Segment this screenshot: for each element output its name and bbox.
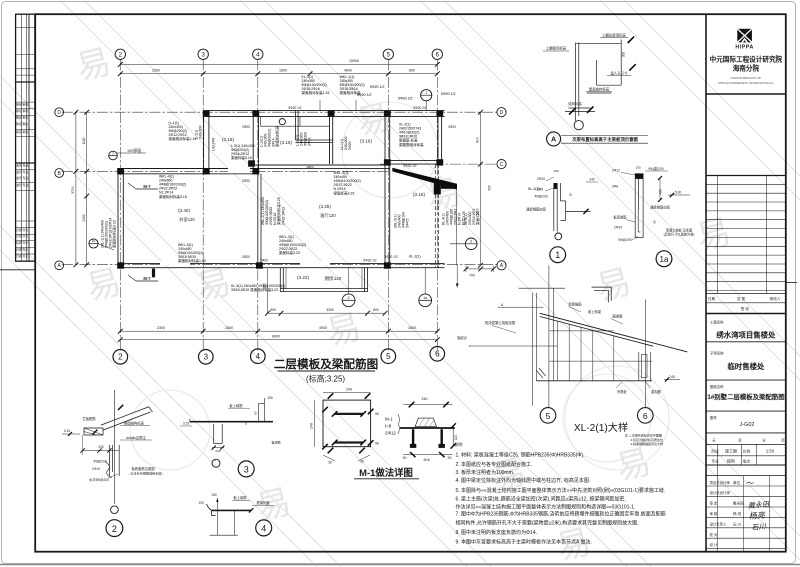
beam label L4 rot xyxy=(212,138,216,151)
svg-text:5Φ20 1/2: 5Φ20 1/2 xyxy=(403,164,416,168)
svg-text:190厚墙: 190厚墙 xyxy=(127,148,141,153)
main drawing title xyxy=(274,357,378,383)
svg-text:500: 500 xyxy=(488,185,492,191)
svg-text:1. 材料: 梁板混凝土等级C25, 钢筋HPB235(Φ): 1. 材料: 梁板混凝土等级C25, 钢筋HPB235(Φ)HRB335(Φ). xyxy=(456,452,585,459)
XL-2 leader texts xyxy=(457,301,680,394)
svg-text:圈梁箍: 圈梁箍 xyxy=(613,313,624,318)
svg-text:2. 本图纸应与各专业图纸配合施工.: 2. 本图纸应与各专业图纸配合施工. xyxy=(456,461,533,468)
rebar label 5phi20b xyxy=(398,97,413,101)
svg-text:150: 150 xyxy=(267,396,273,400)
beam label KL-1 xyxy=(302,75,330,95)
svg-text:变 更: 变 更 xyxy=(737,296,746,301)
XL-2 bottom chord xyxy=(536,380,652,382)
fold mark line xyxy=(0,269,35,271)
svg-text:HIPPA: HIPPA xyxy=(735,45,753,51)
svg-text:5Φ20 1/2: 5Φ20 1/2 xyxy=(357,93,372,97)
svg-text:比例: 比例 xyxy=(743,448,751,453)
fold tick right xyxy=(786,282,797,284)
sloped beam right bar xyxy=(441,184,457,189)
svg-text:结构标高: 结构标高 xyxy=(568,101,582,106)
right dim 700 xyxy=(464,265,496,277)
sloped beam column block xyxy=(434,181,441,195)
svg-text:1b: 1b xyxy=(92,239,96,243)
svg-text:2: 2 xyxy=(470,239,472,243)
room 3.16 right label xyxy=(413,192,425,197)
axis bubble 5 top xyxy=(383,49,393,59)
detail 2 eave section xyxy=(84,390,153,504)
svg-text:2Φ12: 2Φ12 xyxy=(385,431,396,436)
svg-text:梁面标高3.25: 梁面标高3.25 xyxy=(334,190,355,195)
svg-text:板上增筋: 板上增筋 xyxy=(229,403,243,408)
svg-text:会签 专业: 会签 专业 xyxy=(16,170,28,174)
svg-text:会签 专业: 会签 专业 xyxy=(16,164,28,168)
detail A small circle xyxy=(574,121,583,130)
beam label 2KL-1 vertical xyxy=(101,218,117,248)
svg-text:工程名称: 工程名称 xyxy=(710,320,724,325)
svg-text:板起点: 板起点 xyxy=(457,335,467,340)
svg-text:目: 目 xyxy=(738,438,741,442)
svg-text:A: A xyxy=(551,135,556,144)
svg-text:5Φ20 2/2: 5Φ20 2/2 xyxy=(398,97,413,101)
svg-text:1a: 1a xyxy=(423,296,427,300)
detail 2 dims xyxy=(62,429,119,455)
svg-text:50: 50 xyxy=(569,193,573,197)
detail 1 annotations xyxy=(526,169,598,211)
beam label L-1a2 vertical xyxy=(296,132,312,146)
svg-text:审定 审核: 审定 审核 xyxy=(16,103,28,107)
svg-text:图号: 图号 xyxy=(710,415,717,420)
svg-text:9. 本图中灰膏要求标高高于主梁时模板作法见本页节点A 做法: 9. 本图中灰膏要求标高高于主梁时模板作法见本页节点A 做法. xyxy=(456,538,592,545)
beam label WKL-3 bottom xyxy=(279,235,306,255)
beam label XL-4 vertical xyxy=(464,209,480,225)
svg-text:6: 6 xyxy=(643,411,648,421)
XL-2 title xyxy=(574,421,628,434)
watermark glyphs xyxy=(73,43,735,567)
title block divider 1 xyxy=(706,93,786,95)
svg-text:绣水湾项目售楼处: 绣水湾项目售楼处 xyxy=(715,331,776,340)
svg-text:30: 30 xyxy=(328,461,332,465)
right dimension chain xyxy=(475,110,491,268)
appendage left dim 800 xyxy=(263,269,268,314)
svg-text:5Φ20 1/2: 5Φ20 1/2 xyxy=(441,92,456,96)
svg-text:会签 专业: 会签 专业 xyxy=(16,176,28,180)
beam label KL-2 xyxy=(528,187,540,191)
svg-text:A: A xyxy=(500,263,504,269)
svg-text:3. 板厚未注明者为100mm.: 3. 板厚未注明者为100mm. xyxy=(456,469,515,476)
bottom dimension line small xyxy=(265,308,387,316)
column axis4-A xyxy=(256,262,263,268)
svg-text:日期 签名: 日期 签名 xyxy=(16,247,28,251)
svg-text:3Φ20: 3Φ20 xyxy=(260,259,268,263)
svg-text:梁面3.25: 梁面3.25 xyxy=(475,211,480,225)
small dim 3460 labels xyxy=(242,106,456,263)
svg-text:(标高;3.25): (标高;3.25) xyxy=(306,373,345,383)
section marker 1a plan bottom right xyxy=(419,267,432,307)
revision table xyxy=(706,176,786,314)
room 3.40 label xyxy=(178,208,195,223)
HIPPA logo xyxy=(735,29,753,51)
svg-text:Φ8@200: Φ8@200 xyxy=(93,459,106,463)
svg-text:水平Φ8@200: 水平Φ8@200 xyxy=(89,477,109,482)
column axis2-B xyxy=(117,168,124,174)
axis grid lines horizontal xyxy=(62,112,497,265)
wall x330 vertical upper xyxy=(330,111,333,165)
M-1 title xyxy=(354,467,419,479)
M-1 dims xyxy=(309,388,378,465)
svg-text:2: 2 xyxy=(118,353,123,362)
axis bubble D left xyxy=(55,108,64,117)
beam label LL-1 vertical xyxy=(340,137,352,150)
extension line x456 xyxy=(456,189,458,265)
svg-text:2Φ12: 2Φ12 xyxy=(612,168,620,172)
svg-text:58: 58 xyxy=(375,412,379,416)
svg-text:审定 审核: 审定 审核 xyxy=(16,122,28,126)
svg-text:4600: 4600 xyxy=(344,69,352,73)
wall axis3 vertical upper xyxy=(204,111,209,174)
axis bubble B left xyxy=(55,169,64,178)
axis bubble 3 bottom xyxy=(199,350,214,365)
svg-text:6: 6 xyxy=(435,350,440,359)
svg-text:二层模板及梁配筋图: 二层模板及梁配筋图 xyxy=(274,357,378,371)
svg-text:4: 4 xyxy=(261,524,266,534)
svg-text:说明: 说明 xyxy=(454,441,462,448)
column axis4-B xyxy=(252,168,259,174)
firm name text xyxy=(710,55,783,86)
detail A leader texts xyxy=(543,32,631,106)
M-1 plate detail xyxy=(322,393,373,453)
svg-text:2: 2 xyxy=(112,524,117,534)
svg-text:施工图: 施工图 xyxy=(725,447,737,453)
svg-text:杨 亮: 杨 亮 xyxy=(733,511,742,516)
svg-text:项目总设计师: 项目总设计师 xyxy=(710,480,731,485)
svg-text:3300: 3300 xyxy=(326,308,334,312)
lower appendage walls xyxy=(280,268,367,292)
column axis3-D xyxy=(203,110,210,116)
svg-text:4900: 4900 xyxy=(319,326,327,330)
svg-text:5Φ20 1/2: 5Φ20 1/2 xyxy=(370,85,385,89)
XL-2 axis bubble 6 xyxy=(638,408,654,424)
detail 4 bubble xyxy=(256,520,272,536)
svg-text:Φ6(梁)200: Φ6(梁)200 xyxy=(648,166,664,171)
column axis2-A xyxy=(117,262,124,268)
svg-text:1800: 1800 xyxy=(225,326,233,330)
XL-2 slope arrows xyxy=(536,368,545,378)
wall B axis right xyxy=(255,165,390,168)
svg-text:3.斜梁钢筋锚固详见大样: 3.斜梁钢筋锚固详见大样 xyxy=(631,441,664,446)
axis bubble A left xyxy=(55,261,64,270)
svg-text:5Φ20 1/2: 5Φ20 1/2 xyxy=(363,259,376,263)
svg-text:遇梁钢筋加密: 遇梁钢筋加密 xyxy=(526,207,546,212)
svg-text:上翻梁顶标高: 上翻梁顶标高 xyxy=(546,46,567,51)
section marker 2 plan bottom left xyxy=(342,267,355,307)
column x330-D xyxy=(328,110,335,116)
svg-text:1a: 1a xyxy=(660,255,669,264)
room kitchen label label xyxy=(325,275,342,282)
svg-text:梁面相对标高3.23: 梁面相对标高3.23 xyxy=(112,220,117,248)
svg-text:M-7: M-7 xyxy=(143,276,151,281)
svg-text:阶段: 阶段 xyxy=(712,448,720,453)
wall axis5 vertical xyxy=(385,111,390,268)
beam label WKL-4 xyxy=(159,175,187,199)
svg-text:客厅130: 客厅130 xyxy=(320,212,336,219)
svg-text:日期 签名: 日期 签名 xyxy=(16,228,28,232)
column axis5-C xyxy=(384,159,391,165)
svg-text:石 川: 石 川 xyxy=(733,522,742,526)
svg-text:现浇混凝土挑板加筋: 现浇混凝土挑板加筋 xyxy=(485,320,516,325)
svg-text:C: C xyxy=(500,162,504,168)
column right-C xyxy=(436,159,443,165)
svg-text:相同构件,允许钢筋开孔不大于需要(梁跨度≥2米),构造要求其: 相同构件,允许钢筋开孔不大于需要(梁跨度≥2米),构造要求其完整见制图规则放大图… xyxy=(456,520,639,527)
svg-text:100: 100 xyxy=(635,166,640,170)
svg-text:梁面相对标高1.00: 梁面相对标高1.00 xyxy=(178,258,206,263)
svg-text:800: 800 xyxy=(409,69,415,73)
svg-text:Φ6@200: Φ6@200 xyxy=(618,238,631,242)
svg-text:作法详见««混凝土结构施工图平面整体表示方法制图规则和构造详: 作法详见««混凝土结构施工图平面整体表示方法制图规则和构造详图»»03G101-… xyxy=(456,503,636,510)
detail 3 dims/annotations xyxy=(180,396,281,453)
svg-text:3: 3 xyxy=(244,465,249,475)
svg-text:梁面标高3.15: 梁面标高3.15 xyxy=(231,155,252,160)
beam label WKL-5 xyxy=(178,243,206,263)
svg-text:梁面相对标高1.15: 梁面相对标高1.15 xyxy=(302,90,330,95)
detail 2 bubbles xyxy=(111,506,119,514)
svg-text:审定 审核: 审定 审核 xyxy=(16,109,28,113)
svg-text:上翻边梁顶标高: 上翻边梁顶标高 xyxy=(602,32,626,37)
top band inner lines xyxy=(261,116,330,126)
axis bubble 2 bottom xyxy=(113,350,128,365)
wall A axis bottom xyxy=(118,263,445,267)
svg-text:审 定: 审 定 xyxy=(710,501,718,506)
svg-text:Φ6@200: Φ6@200 xyxy=(534,195,547,199)
svg-text:(3.23): (3.23) xyxy=(297,275,309,280)
beam label KL-5 xyxy=(231,284,285,292)
axis grid lines vertical xyxy=(120,60,437,352)
column interior xyxy=(248,160,255,166)
beam label L-5 in room xyxy=(231,144,255,160)
wall D axis top xyxy=(204,111,445,117)
svg-text:梁面标高3.23: 梁面标高3.23 xyxy=(279,250,300,255)
svg-text:D: D xyxy=(57,110,61,116)
door mark below A wall xyxy=(152,269,155,278)
project name section xyxy=(706,320,786,342)
interior door openings xyxy=(160,169,330,264)
beam label WKL-1 xyxy=(340,75,365,95)
svg-text:M-1: M-1 xyxy=(385,417,393,422)
svg-text:2Φ8: 2Φ8 xyxy=(537,187,543,191)
title block xyxy=(706,29,797,552)
svg-text:梁面相对标高3.15: 梁面相对标高3.15 xyxy=(159,194,187,199)
detail 1a bubble xyxy=(656,251,672,267)
drawing name section xyxy=(706,384,786,411)
detail 3 bubbles xyxy=(212,459,220,467)
svg-text:details见附注: details见附注 xyxy=(126,435,146,440)
bottom dimension line total xyxy=(118,335,440,342)
svg-text:日期: 日期 xyxy=(708,296,716,301)
svg-text:3.15: 3.15 xyxy=(64,429,71,433)
svg-text:HAINAN BRANCH OF: HAINAN BRANCH OF xyxy=(731,76,762,80)
wall right edge vertical lower dashed xyxy=(435,164,438,268)
svg-text:结构: 结构 xyxy=(727,458,735,464)
left dimension chain outer xyxy=(71,110,78,267)
bottom dimension line segments xyxy=(118,326,440,334)
svg-text:板上增筋: 板上增筋 xyxy=(233,495,247,500)
svg-text:5Φ20 2/2: 5Φ20 2/2 xyxy=(413,106,426,110)
room 3.23 label xyxy=(297,275,309,280)
svg-text:400: 400 xyxy=(659,189,663,195)
section marker 1 with label xyxy=(109,148,146,160)
svg-text:2300: 2300 xyxy=(157,326,165,330)
svg-text:1: 1 xyxy=(425,91,427,95)
svg-text:临时售楼处: 临时售楼处 xyxy=(727,362,765,371)
svg-text:(3.16): (3.16) xyxy=(280,140,292,145)
svg-text:修改人: 修改人 xyxy=(770,296,781,301)
svg-text:5: 5 xyxy=(386,352,391,361)
top band circle marker 8 xyxy=(279,119,285,125)
svg-text:梁腹筋相对标高: 梁腹筋相对标高 xyxy=(399,142,424,147)
detail 4 slab detail xyxy=(207,498,252,535)
beam label WKL-3 top xyxy=(334,171,361,195)
svg-text:120: 120 xyxy=(454,435,458,441)
svg-text:3Φ18;3Φ20 梁面相对标高3.23: 3Φ18;3Φ20 梁面相对标高3.23 xyxy=(231,287,278,292)
marker M-7 upper xyxy=(128,183,158,189)
detail 4 annotations xyxy=(198,493,274,512)
svg-text:(具体尺寸以建施为准): (具体尺寸以建施为准) xyxy=(664,232,695,237)
svg-text:100: 100 xyxy=(198,501,204,505)
svg-text:(3.40): (3.40) xyxy=(178,208,190,213)
beam label XL-2 plan xyxy=(399,123,424,147)
svg-text:2Φ22;3Φ22: 2Φ22;3Φ22 xyxy=(281,207,285,225)
stage scale table xyxy=(706,437,786,475)
wall axis4 vertical lower xyxy=(258,174,261,264)
top dimension line total xyxy=(118,59,440,67)
svg-text:300: 300 xyxy=(621,52,625,58)
axis bubble 4 bottom xyxy=(250,349,265,364)
wall axis4 vertical upper xyxy=(253,111,258,174)
axis bubble 2 top xyxy=(115,49,125,59)
svg-text:240: 240 xyxy=(422,397,428,401)
marker M-7 lower xyxy=(128,275,158,281)
svg-text:梁加筋: 梁加筋 xyxy=(651,389,662,394)
svg-text:240: 240 xyxy=(589,178,595,182)
left dimension chain inner xyxy=(82,110,89,267)
svg-text:中元国际工程设计研究院: 中元国际工程设计研究院 xyxy=(710,55,783,64)
svg-text:日期 签名: 日期 签名 xyxy=(16,234,28,238)
svg-text:专业: 专业 xyxy=(712,459,720,464)
svg-text:次梁布置标高高于主梁板顶示意图: 次梁布置标高高于主梁板顶示意图 xyxy=(572,136,638,143)
svg-text:审定 审核: 审定 审核 xyxy=(16,116,28,120)
svg-text:吊筋处: 吊筋处 xyxy=(617,389,628,394)
svg-text:1:50: 1:50 xyxy=(766,448,775,453)
svg-text:3: 3 xyxy=(204,353,209,362)
beam label 2KL-3 vertical xyxy=(394,212,410,228)
XL-2 top slab line xyxy=(456,265,565,288)
svg-text:屋面结构标高: 屋面结构标高 xyxy=(589,86,610,91)
M-1 side labels xyxy=(385,414,400,436)
detail 1 column section xyxy=(554,183,591,231)
svg-text:1: 1 xyxy=(112,151,114,155)
svg-text:3Φ20 1/2: 3Φ20 1/2 xyxy=(384,255,397,259)
axis bubble C right xyxy=(497,160,506,169)
axis bubble 3 top xyxy=(198,49,208,59)
svg-text:8900: 8900 xyxy=(272,335,280,339)
sub project section xyxy=(706,351,786,381)
svg-text:5. 本图除与««混凝土结构施工图平面整体表示方法»»中先浇: 5. 本图除与««混凝土结构施工图平面整体表示方法»»中先浇筑对照(刷)»(03… xyxy=(456,487,666,494)
svg-text:卧室120: 卧室120 xyxy=(179,216,195,223)
svg-text:1800: 1800 xyxy=(279,69,287,73)
svg-text:2Φ10: 2Φ10 xyxy=(92,467,100,471)
svg-text:3Φ20: 3Φ20 xyxy=(448,125,456,129)
svg-text:板底筋: 板底筋 xyxy=(271,440,280,445)
svg-text:8. 图中未注明的板支座负筋均为Φ14.: 8. 图中未注明的板支座负筋均为Φ14. xyxy=(456,529,538,536)
svg-text:2400: 2400 xyxy=(82,214,86,221)
detail A wall section xyxy=(565,40,621,122)
svg-text:M-1做法详图: M-1做法详图 xyxy=(359,467,413,478)
svg-text:杨亮: 杨亮 xyxy=(748,511,766,521)
sloped beam solid band xyxy=(392,168,457,190)
svg-text:3Φ20: 3Φ20 xyxy=(306,165,314,169)
svg-text:会签 专业: 会签 专业 xyxy=(16,183,28,187)
svg-text:240: 240 xyxy=(346,388,352,392)
title block left edge xyxy=(705,14,707,552)
XL-2 sloped top chord xyxy=(540,313,688,352)
svg-text:30: 30 xyxy=(403,456,407,460)
svg-text:设计负责人: 设计负责人 xyxy=(710,521,728,526)
axis bubble 5 bottom xyxy=(381,349,396,364)
axis bubble A right xyxy=(497,261,506,270)
room 3.25 label xyxy=(319,204,336,219)
svg-text:1800: 1800 xyxy=(408,326,416,330)
svg-text:坡上斜梁: 坡上斜梁 xyxy=(588,309,602,314)
svg-text:审定 审核: 审定 审核 xyxy=(16,130,28,134)
detail marker 1b left xyxy=(89,239,114,250)
svg-text:焊接锚筋: 焊接锚筋 xyxy=(568,301,582,306)
room 3.18 label xyxy=(222,137,234,142)
beam label rotated room425 xyxy=(261,197,285,225)
svg-text:板底钢筋: 板底钢筋 xyxy=(613,215,627,220)
XL-2 left leader line xyxy=(469,345,557,347)
svg-text:留人孔尺寸: 留人孔尺寸 xyxy=(611,70,629,75)
svg-text:(3.18): (3.18) xyxy=(222,137,234,142)
beam label L-1a vertical xyxy=(260,126,280,147)
left signature strip table xyxy=(16,14,35,261)
svg-text:D: D xyxy=(500,110,504,116)
svg-text:签 收: 签 收 xyxy=(741,306,750,311)
svg-text:注: 1.次梁布置标高见平面图: 注: 1.次梁布置标高见平面图 xyxy=(625,433,662,438)
svg-text:15900: 15900 xyxy=(349,59,359,63)
svg-text:M-7: M-7 xyxy=(143,184,151,189)
leader lines top beams xyxy=(320,100,356,111)
XL-2 axis bubble 5 xyxy=(540,408,556,424)
svg-text:1: 1 xyxy=(555,250,560,260)
column axis4-D xyxy=(252,110,259,116)
svg-text:2Φ14: 2Φ14 xyxy=(308,137,312,146)
XL-2 flashing polyline top xyxy=(592,287,612,302)
detail 1 bubbles xyxy=(555,231,562,240)
detail 1a annotations xyxy=(612,166,695,243)
svg-text:240: 240 xyxy=(215,449,220,453)
svg-text:t=8: t=8 xyxy=(385,424,392,429)
svg-text:IPPR ENGINEERING INTERNATIONAL: IPPR ENGINEERING INTERNATIONAL xyxy=(718,81,773,85)
section marker 2 plan right xyxy=(450,238,477,250)
svg-text:楼面结构标高: 楼面结构标高 xyxy=(124,421,144,426)
svg-text:6. 梁上主筋(次梁)处,箍筋沿全梁加密(次梁),间距应≥梁: 6. 梁上主筋(次梁)处,箍筋沿全梁加密(次梁),间距应≥梁高≥12, 按梁箍间… xyxy=(456,495,626,502)
axis bubble D right xyxy=(497,108,506,117)
notes block xyxy=(454,441,666,545)
svg-text:5.00: 5.00 xyxy=(675,191,682,195)
wall partition y140 xyxy=(296,140,333,142)
wall C axis right xyxy=(385,161,442,165)
svg-text:a-a: a-a xyxy=(423,457,430,462)
svg-text:240x300: 240x300 xyxy=(199,126,203,139)
